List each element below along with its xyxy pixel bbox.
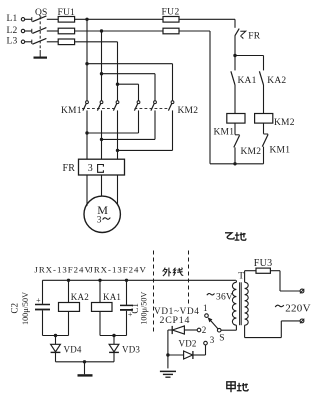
svg-text:KA2: KA2 <box>71 292 89 302</box>
svg-text:JRX-13F24V: JRX-13F24V <box>89 265 146 275</box>
svg-text:KM1: KM1 <box>214 127 235 137</box>
svg-text:3: 3 <box>210 335 215 345</box>
svg-text:C2: C2 <box>9 303 19 314</box>
svg-text:100μ/50V: 100μ/50V <box>21 292 30 325</box>
svg-text:2CP14: 2CP14 <box>160 315 191 326</box>
svg-text:KA1: KA1 <box>103 292 121 302</box>
svg-text:KM1: KM1 <box>61 106 82 116</box>
svg-text:220V: 220V <box>285 302 311 314</box>
svg-text:T: T <box>238 272 244 282</box>
svg-text:FU2: FU2 <box>162 8 180 18</box>
svg-text:FU1: FU1 <box>58 8 76 18</box>
svg-text:L1: L1 <box>7 14 18 24</box>
svg-text:1: 1 <box>203 303 208 313</box>
svg-text:L3: L3 <box>7 37 18 47</box>
svg-text:FR: FR <box>63 163 76 174</box>
svg-text:C1: C1 <box>130 303 140 314</box>
svg-text:100μ/50V: 100μ/50V <box>140 292 149 325</box>
svg-text:VD2: VD2 <box>179 338 197 348</box>
svg-text:QS: QS <box>35 8 48 18</box>
svg-text:S: S <box>219 333 224 343</box>
svg-text:FR: FR <box>248 31 260 41</box>
svg-text:FU3: FU3 <box>254 258 273 269</box>
svg-text:KM2: KM2 <box>178 106 199 116</box>
svg-text:VD4: VD4 <box>64 344 82 354</box>
svg-text:2: 2 <box>202 325 207 335</box>
svg-text:36V: 36V <box>216 292 233 302</box>
svg-text:3: 3 <box>88 163 93 174</box>
svg-text:KA2: KA2 <box>267 76 286 86</box>
svg-text:VD3: VD3 <box>122 344 140 354</box>
svg-text:KM2: KM2 <box>274 118 295 128</box>
svg-text:L2: L2 <box>7 26 18 36</box>
svg-text:KA1: KA1 <box>238 76 257 86</box>
svg-text:JRX-13F24V: JRX-13F24V <box>34 265 91 275</box>
svg-text:+: + <box>36 296 41 305</box>
svg-text:KM2: KM2 <box>241 147 262 157</box>
svg-text:3: 3 <box>97 215 102 225</box>
svg-text:KM1: KM1 <box>270 146 291 156</box>
